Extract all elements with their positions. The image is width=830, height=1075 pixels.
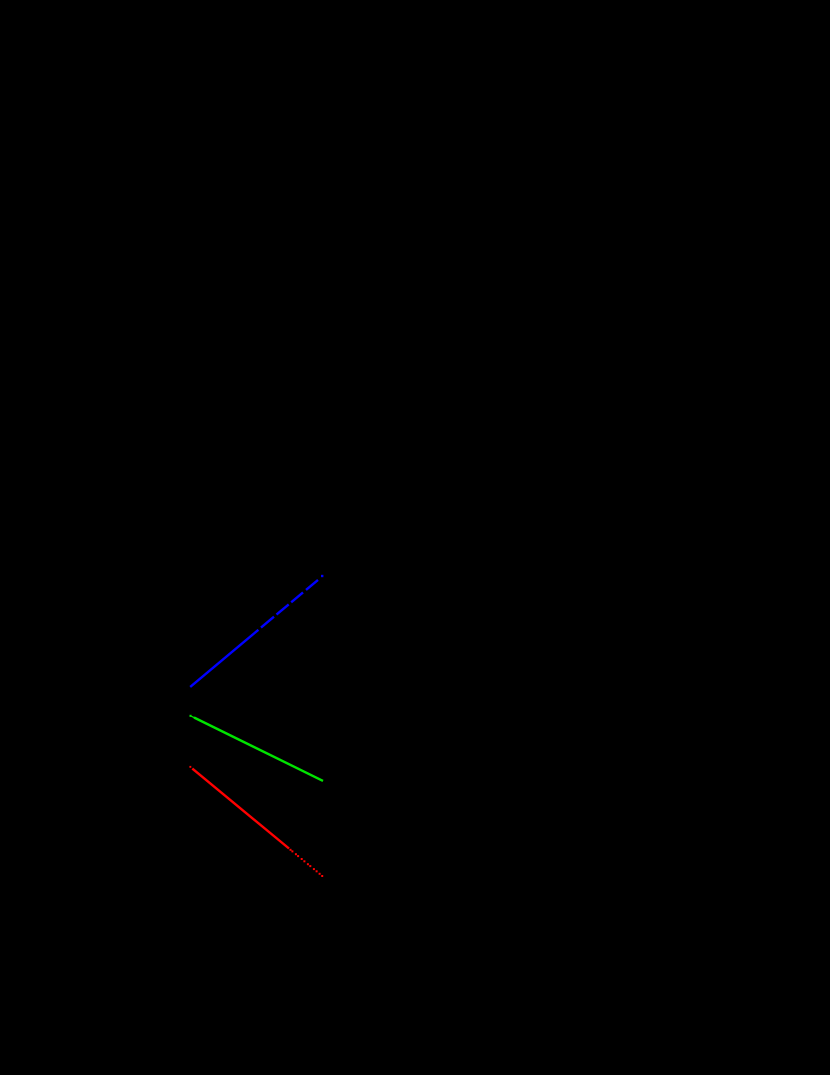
- blue series: rising line, solid then dashed, lone end dot: [190, 575, 323, 687]
- green series: shallow falling solid line with start dot: [190, 715, 324, 781]
- wire: blue dash 2: [277, 604, 289, 614]
- wire: blue solid segment: [190, 630, 258, 687]
- node: blue end dot: [321, 575, 323, 577]
- wire: blue dash 4: [306, 580, 318, 590]
- wire: red solid segment: [192, 769, 289, 849]
- node: green start dot: [190, 715, 192, 717]
- wire: blue dash 1: [261, 617, 274, 628]
- wire: blue dash 3: [291, 592, 303, 602]
- node: red start dot: [189, 766, 191, 768]
- wire: green solid line: [194, 718, 323, 781]
- red series: steep falling line, solid then dotted: [189, 766, 323, 877]
- wire: green thin connector: [192, 716, 197, 719]
- node: red dots (tail): [290, 849, 324, 877]
